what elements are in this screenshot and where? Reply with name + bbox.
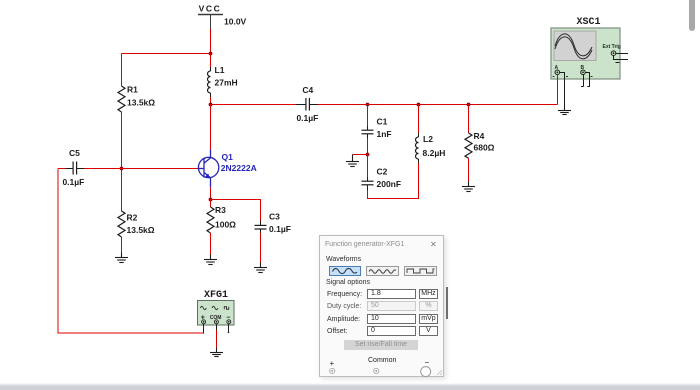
- wire main horizontal right of C4: [309, 104, 557, 106]
- signal options label: [326, 279, 370, 286]
- ground under R2: [115, 253, 128, 263]
- resistor R1: [118, 85, 155, 113]
- wire scope A to main: [557, 75, 559, 105]
- dialog resize grip: [436, 369, 443, 376]
- dialog minus terminal: [425, 358, 430, 367]
- capacitor C3: [255, 211, 291, 234]
- set rise/fall button: [344, 340, 418, 350]
- wire R3 bottom lead: [210, 233, 212, 255]
- wire R2 top lead: [121, 169, 123, 212]
- waveform button triangle: [366, 266, 399, 276]
- svg-text:680Ω: 680Ω: [474, 142, 495, 152]
- capacitor C1: [362, 116, 392, 139]
- terminal XSC1 B: [581, 70, 590, 87]
- wire L2 top lead: [418, 105, 420, 134]
- capacitor C5: [62, 148, 84, 187]
- svg-text:13.5kΩ: 13.5kΩ: [127, 98, 155, 108]
- svg-text:13.5kΩ: 13.5kΩ: [127, 225, 155, 235]
- resistor R2: [118, 211, 155, 237]
- wire R4 top lead: [468, 105, 470, 134]
- wire emitter to C3: [211, 200, 261, 226]
- terminal XFG1 minus: [227, 320, 231, 333]
- wire main horizontal left of C4: [211, 104, 306, 106]
- svg-text:2N2222A: 2N2222A: [221, 163, 257, 173]
- node collector junction: [209, 103, 213, 107]
- svg-text:VCC: VCC: [199, 4, 222, 14]
- inductor L2: [416, 133, 446, 163]
- svg-text:100Ω: 100Ω: [215, 220, 236, 230]
- wire L1 bottom lead: [210, 97, 212, 105]
- ground under R3: [204, 255, 217, 265]
- svg-text:R4: R4: [474, 131, 485, 141]
- svg-text:R2: R2: [127, 213, 138, 223]
- transistor Q1: [198, 150, 256, 188]
- waveform button square: [404, 266, 437, 276]
- wire C2 bottom to L2 bottom: [368, 163, 419, 199]
- wire left feedback loop: [58, 169, 204, 334]
- wire junction to ground tap: [353, 154, 368, 156]
- svg-text:0.1µF: 0.1µF: [296, 113, 318, 123]
- svg-text:8.2µH: 8.2µH: [423, 148, 446, 158]
- ground under C3: [254, 263, 267, 273]
- right scrollbar thumb: [689, 0, 695, 31]
- window edge bar right of dialog: [446, 287, 448, 319]
- node C1-C2 junction: [366, 153, 370, 157]
- svg-text:10.0V: 10.0V: [224, 17, 247, 27]
- inductor L1: [208, 65, 238, 97]
- svg-text:C5: C5: [69, 148, 80, 158]
- wire C3 bottom lead: [260, 229, 262, 263]
- wire R4 bottom lead: [468, 158, 470, 181]
- waveform button sine (selected): [329, 266, 361, 276]
- function generator dialog: [319, 235, 444, 377]
- svg-text:27mH: 27mH: [215, 77, 238, 87]
- bottom scrollbar track: [0, 383, 700, 390]
- wire C1 bottom lead: [367, 134, 369, 155]
- svg-text:XFG1: XFG1: [204, 290, 228, 301]
- wire emitter lead: [210, 187, 212, 199]
- capacitor C4: [296, 85, 318, 123]
- resistor R4: [465, 131, 495, 158]
- wire R2 bottom lead: [121, 237, 123, 253]
- svg-text:L1: L1: [215, 65, 225, 75]
- svg-text:XSC1: XSC1: [576, 17, 600, 28]
- wire L1 top lead: [210, 54, 212, 68]
- wire C5 right to base: [77, 168, 199, 170]
- amplitude row: [327, 316, 360, 323]
- wire top horizontal to R1: [122, 53, 211, 55]
- ground under C1-C2 tap: [346, 155, 359, 167]
- dialog plus terminal: [330, 359, 335, 368]
- node VCC junction: [209, 52, 213, 56]
- terminal XSC1 Ext Trig: [611, 51, 628, 63]
- terminal XFG1 COM: [214, 320, 218, 330]
- svg-text:C2: C2: [377, 167, 388, 177]
- ground under XFG1 COM: [210, 348, 223, 357]
- svg-text:1nF: 1nF: [377, 129, 392, 139]
- svg-text:C3: C3: [269, 211, 280, 221]
- dialog close button: [430, 240, 437, 249]
- oscilloscope XSC1: [551, 17, 621, 79]
- duty cycle row: [327, 303, 361, 310]
- svg-text:200nF: 200nF: [377, 179, 402, 189]
- power VCC: [198, 4, 247, 30]
- node base junction: [120, 167, 124, 171]
- capacitor C2: [362, 167, 402, 189]
- dialog common terminal: [368, 357, 396, 364]
- wire R1 top lead: [121, 54, 123, 87]
- svg-text:C1: C1: [377, 116, 388, 126]
- svg-text:C4: C4: [302, 85, 313, 95]
- svg-text:R3: R3: [215, 205, 226, 215]
- wire C2 top lead: [367, 155, 369, 182]
- frequency row: [327, 291, 362, 298]
- terminal XFG1 plus: [202, 320, 206, 334]
- wire C1 top lead: [367, 105, 369, 131]
- wire XFG1 COM to ground: [216, 330, 218, 348]
- node L2 junction top: [417, 103, 421, 107]
- svg-text:R1: R1: [127, 85, 138, 95]
- svg-text:Ext Trig: Ext Trig: [603, 44, 621, 50]
- wire VCC stem to junction: [210, 29, 212, 54]
- svg-text:0.1µF: 0.1µF: [62, 177, 84, 187]
- resistor R3: [207, 205, 236, 233]
- wire C5 left lead: [58, 168, 73, 170]
- dialog title: [325, 241, 404, 248]
- svg-text:L2: L2: [423, 134, 433, 144]
- svg-text:Q1: Q1: [222, 152, 234, 162]
- ground under R4: [462, 182, 475, 192]
- wire R3 top lead: [210, 200, 212, 208]
- offset row: [327, 328, 348, 335]
- terminal XSC1 A: [555, 70, 565, 106]
- function generator XFG1: [198, 290, 235, 325]
- node C1 junction top: [366, 103, 370, 107]
- ground under scope A-: [558, 106, 571, 115]
- wire R1 bottom lead: [121, 112, 123, 169]
- wire collector lead: [210, 105, 212, 150]
- node emitter junction: [209, 198, 213, 202]
- node R4 junction top: [467, 103, 471, 107]
- waveforms label: [326, 256, 361, 263]
- svg-text:0.1µF: 0.1µF: [269, 224, 291, 234]
